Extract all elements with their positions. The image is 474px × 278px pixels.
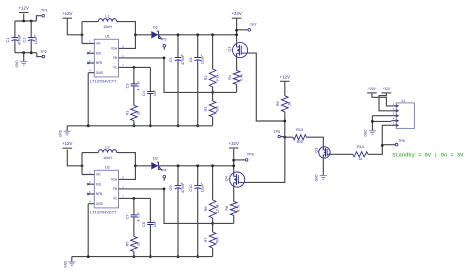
svg-text:Q4: Q4 <box>224 175 229 181</box>
wire L right to switch node <box>117 153 136 180</box>
wire switch node to diode <box>135 34 151 36</box>
svg-text:LT1370HVCT7: LT1370HVCT7 <box>90 210 117 215</box>
wire FB net <box>125 58 237 93</box>
wire L right to switch node <box>117 22 136 49</box>
svg-text:NFB: NFB <box>96 192 102 196</box>
test point TP5 <box>281 136 285 138</box>
transistor Q3 NMOS control <box>319 147 330 158</box>
svg-text:+24V: +24V <box>231 11 241 16</box>
svg-text:R6: R6 <box>203 206 208 211</box>
svg-text:+12V: +12V <box>62 141 72 146</box>
svg-text:9.1k: 9.1k <box>215 74 219 81</box>
wire Vc net <box>125 66 151 68</box>
svg-text:FB: FB <box>113 187 117 191</box>
wire GND to J1 pin 3 <box>372 115 391 117</box>
svg-text:Vsw: Vsw <box>111 47 118 51</box>
svg-text:J1: J1 <box>401 99 405 103</box>
node Vin junction <box>81 33 84 36</box>
capacitor C1 470uF <box>14 21 16 38</box>
wire Q3 source to ground <box>322 158 324 175</box>
wire switch node to diode <box>135 165 151 167</box>
ground rail <box>67 125 212 127</box>
svg-text:C1: C1 <box>5 38 10 43</box>
svg-text:U2: U2 <box>105 166 110 170</box>
node Vin junction <box>81 164 84 167</box>
svg-text:GND: GND <box>15 60 19 68</box>
svg-text:TP6: TP6 <box>398 139 405 143</box>
IC U1 LT1370HVCT7 <box>94 39 118 77</box>
inductor L2 10uH <box>98 150 116 153</box>
svg-text:+12V: +12V <box>280 74 290 79</box>
svg-text:2k: 2k <box>137 111 141 115</box>
wire Q4 gate to TP5 node <box>245 137 285 182</box>
svg-text:Q3: Q3 <box>314 148 319 153</box>
resistor R3 feedback lower 500 <box>209 101 216 117</box>
wire L left <box>82 152 98 154</box>
svg-text:4.7nF: 4.7nF <box>137 211 141 221</box>
ground rail <box>72 256 213 258</box>
wire Vin vertical rail <box>82 153 88 175</box>
capacitor C7 4.7nF comp <box>133 198 135 215</box>
capacitor C3 4.7nF comp <box>133 67 135 84</box>
svg-text:R7: R7 <box>203 238 208 243</box>
wire Vin vertical rail <box>82 22 88 44</box>
wire +32V stem <box>233 149 235 172</box>
svg-text:+12V: +12V <box>19 6 29 11</box>
svg-text:+: + <box>181 181 183 185</box>
svg-text:U1: U1 <box>105 35 110 39</box>
wire Q3 drain to R14 <box>330 153 335 155</box>
wire Vc net <box>125 197 151 199</box>
resistor R4 2.4k <box>236 58 238 71</box>
svg-text:R4: R4 <box>227 74 232 80</box>
capacitor C5 470uF <box>177 35 179 58</box>
diode D1 schottky <box>151 31 158 38</box>
pin 5 J1 <box>391 124 396 126</box>
resistor R14 1k <box>335 153 353 155</box>
ground symbol <box>66 126 68 131</box>
wire output rail <box>158 165 233 167</box>
transistor Q1 PMOS output switch <box>233 43 248 58</box>
wire R14 to J1 pin 5 <box>368 125 391 154</box>
resistor R8 4.7k <box>233 187 235 201</box>
svg-text:2k: 2k <box>137 242 141 246</box>
svg-text:S/S: S/S <box>96 182 101 186</box>
IC U2 LT1370HVCT7 <box>94 170 118 208</box>
svg-text:500: 500 <box>297 140 303 144</box>
node rail end <box>235 33 238 36</box>
svg-text:+24V: +24V <box>368 87 376 91</box>
test point TP8 <box>232 159 235 162</box>
wire input top rail <box>15 20 37 22</box>
svg-text:GND: GND <box>59 129 63 137</box>
capacitor C2 10uF <box>30 21 32 38</box>
ground (connector) <box>369 130 376 132</box>
node TP6 junction <box>381 144 384 147</box>
svg-text:.1uF: .1uF <box>153 89 157 97</box>
svg-text:C6: C6 <box>188 57 193 62</box>
resistor R9 pullup 2k <box>284 82 286 96</box>
node TP5 <box>283 136 286 139</box>
resistor R5 comp 2k <box>131 236 138 251</box>
capacitor C6 10uF <box>197 35 199 58</box>
svg-text:C4: C4 <box>141 90 146 96</box>
wire GND vertical <box>371 116 373 131</box>
wire +32V to J1 pin 2 <box>379 93 391 111</box>
svg-text:+: + <box>34 33 36 37</box>
svg-text:NFB: NFB <box>96 61 102 65</box>
svg-text:10uH: 10uH <box>103 25 112 29</box>
svg-text:+: + <box>181 53 183 57</box>
svg-text:R9: R9 <box>275 101 280 106</box>
svg-text:+32V: +32V <box>229 141 239 146</box>
svg-text:R14: R14 <box>357 144 365 149</box>
svg-text:C2: C2 <box>21 38 26 43</box>
ground symbol <box>71 257 73 262</box>
ground (Q3) <box>320 175 327 177</box>
svg-text:GND: GND <box>314 174 318 182</box>
wire +24V to J1 pin 1 <box>372 93 392 106</box>
node switch junction <box>134 164 137 167</box>
svg-text:Vin: Vin <box>96 173 101 177</box>
resistor R1 comp 2k <box>131 105 138 120</box>
svg-text:GND: GND <box>96 202 104 206</box>
svg-text:2k: 2k <box>288 102 292 106</box>
resistor R7 feedback lower 500 <box>209 232 216 248</box>
svg-text:GND: GND <box>364 129 368 137</box>
transistor Q4 PMOS output switch <box>230 172 245 187</box>
pin 1 J1 <box>391 105 396 107</box>
wire input bottom rail <box>15 52 37 54</box>
node rail end bottom <box>232 164 235 167</box>
wire Q1 gate to TP5 node <box>248 53 285 121</box>
svg-text:R2: R2 <box>203 75 208 80</box>
diode D2 schottky <box>151 162 158 169</box>
svg-text:Standby = 0V | On = 3V: Standby = 0V | On = 3V <box>392 152 464 158</box>
svg-text:C7: C7 <box>124 214 129 219</box>
svg-text:TP2: TP2 <box>40 50 47 54</box>
svg-text:Vin: Vin <box>96 42 101 46</box>
svg-text:+: + <box>200 53 202 57</box>
svg-text:.1uF: .1uF <box>153 220 157 228</box>
wire output rail <box>158 34 236 36</box>
wire GND to J1 pin 4 <box>372 120 391 122</box>
wire GND pin to rail <box>87 204 89 257</box>
wire +12V stem to Vin node <box>67 150 82 166</box>
svg-text:+32V: +32V <box>383 87 391 91</box>
wire R13 to Q3 <box>306 137 323 147</box>
wire FB net <box>125 189 234 224</box>
svg-text:L2: L2 <box>105 144 109 149</box>
wire R9 to TP5 node <box>284 112 286 137</box>
svg-text:C9: C9 <box>168 186 173 191</box>
svg-text:TP5: TP5 <box>273 130 280 134</box>
test point TP3 <box>159 36 162 40</box>
wire +12V stem to Vin node <box>67 19 82 35</box>
svg-text:+12V: +12V <box>62 11 72 16</box>
svg-text:TP3: TP3 <box>160 37 167 41</box>
test point TP1 <box>36 16 41 21</box>
connector J1 <box>396 103 414 128</box>
resistor R6 feedback upper <box>212 166 214 200</box>
svg-text:4.7k: 4.7k <box>237 205 241 212</box>
svg-text:C8: C8 <box>141 222 146 227</box>
pin 4 J1 <box>391 120 396 122</box>
capacitor C10 10uF <box>197 166 199 186</box>
svg-text:1k: 1k <box>358 157 362 161</box>
svg-text:12.4k: 12.4k <box>215 204 219 213</box>
svg-text:LT1370HVCT7: LT1370HVCT7 <box>90 79 117 84</box>
svg-text:R3: R3 <box>203 107 208 112</box>
inductor L1 10uH <box>98 19 116 22</box>
svg-text:C3: C3 <box>124 83 129 88</box>
node GND junction <box>371 120 374 123</box>
svg-text:FB: FB <box>113 56 117 60</box>
wire GND pin to rail <box>87 73 89 126</box>
svg-text:D2: D2 <box>153 155 158 160</box>
svg-text:R5: R5 <box>124 242 129 247</box>
svg-text:L1: L1 <box>105 13 109 18</box>
svg-text:C5: C5 <box>168 57 173 62</box>
svg-text:4.7nF: 4.7nF <box>137 80 141 90</box>
svg-text:Vc: Vc <box>113 197 117 201</box>
capacitor C8 0.1uF <box>149 198 151 222</box>
svg-text:Q1: Q1 <box>226 47 231 52</box>
pin 3 J1 <box>391 115 396 117</box>
svg-text:TP7: TP7 <box>250 23 257 27</box>
svg-text:+: + <box>200 181 202 185</box>
svg-text:R8: R8 <box>224 206 229 211</box>
test point TP2 <box>37 53 42 57</box>
svg-text:500: 500 <box>215 237 219 243</box>
wire L left <box>82 21 98 23</box>
svg-text:GND: GND <box>63 260 67 268</box>
pin 2 J1 <box>391 110 396 112</box>
svg-text:TP4: TP4 <box>160 168 167 172</box>
svg-text:Vc: Vc <box>113 66 117 70</box>
svg-text:10uH: 10uH <box>103 156 112 160</box>
ground (input filter) <box>23 53 25 62</box>
test point TP6 <box>382 144 395 146</box>
svg-text:D1: D1 <box>153 24 158 29</box>
wire +24V stem <box>236 19 238 43</box>
node C2 top <box>22 20 25 23</box>
svg-text:S/S: S/S <box>96 51 101 55</box>
svg-text:TP1: TP1 <box>41 8 48 12</box>
svg-text:R1: R1 <box>124 111 129 116</box>
test point TP4 <box>159 167 162 171</box>
svg-text:R13: R13 <box>296 127 303 132</box>
node switch junction <box>134 33 137 36</box>
svg-text:500: 500 <box>215 106 219 112</box>
test point TP7 <box>235 29 238 32</box>
svg-text:GND: GND <box>96 71 104 75</box>
svg-text:+: + <box>18 33 20 37</box>
capacitor C9 470uF <box>177 166 179 186</box>
svg-text:2.4k: 2.4k <box>239 74 243 81</box>
resistor R13 500 gate series <box>285 136 293 138</box>
svg-text:TP8: TP8 <box>247 153 254 157</box>
capacitor C4 0.1uF <box>149 67 151 91</box>
wire +12V stem <box>23 14 25 21</box>
svg-text:C10: C10 <box>188 184 193 192</box>
resistor R2 feedback upper <box>212 35 214 69</box>
svg-text:Vsw: Vsw <box>111 178 118 182</box>
